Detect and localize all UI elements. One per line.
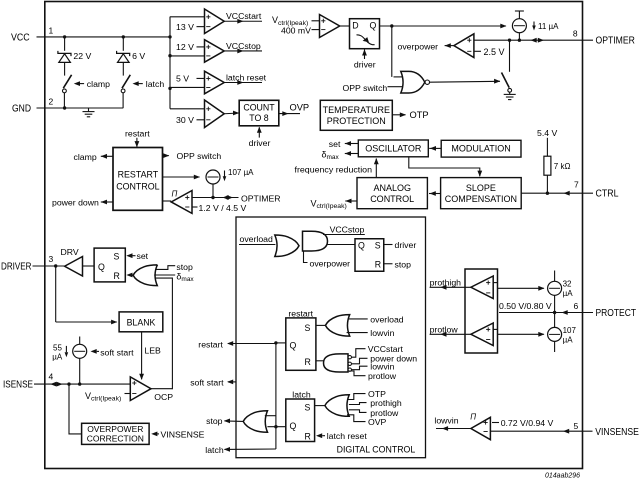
svg-text:6: 6 [574,301,579,311]
svg-text:latch: latch [146,79,165,89]
svg-text:overload: overload [240,234,273,244]
svg-text:stop: stop [395,259,412,269]
svg-text:OPTIMER: OPTIMER [596,36,635,47]
svg-text:D: D [352,21,358,31]
svg-text:400 mV: 400 mV [281,26,311,36]
svg-text:OPP switch: OPP switch [177,151,222,161]
svg-text:power down: power down [52,198,99,208]
svg-text:5: 5 [574,421,579,431]
svg-text:lowvin: lowvin [370,328,394,338]
svg-text:latch reset: latch reset [327,431,368,441]
svg-text:OVP: OVP [290,103,310,113]
svg-text:6 V: 6 V [132,51,145,61]
svg-text:3: 3 [49,254,54,264]
svg-text:clamp: clamp [74,152,97,162]
svg-text:restart: restart [125,128,150,138]
svg-text:Q: Q [290,341,297,351]
svg-text:TEMPERATURE: TEMPERATURE [323,105,390,115]
svg-text:OVERPOWER: OVERPOWER [87,424,143,434]
svg-text:5 V: 5 V [176,74,189,84]
svg-text:latch: latch [292,390,311,400]
svg-text:CORRECTION: CORRECTION [87,434,144,444]
svg-text:1.2 V / 4.5 V: 1.2 V / 4.5 V [199,203,247,213]
svg-text:BLANK: BLANK [127,317,156,327]
svg-text:PROTECTION: PROTECTION [327,116,386,126]
svg-text:GND: GND [12,104,31,115]
svg-text:OSCILLATOR: OSCILLATOR [365,144,422,154]
svg-text:µA: µA [563,335,574,344]
svg-text:OPTIMER: OPTIMER [241,193,281,203]
svg-text:set: set [329,139,341,149]
svg-text:Π: Π [470,413,476,422]
svg-text:prothigh: prothigh [370,398,402,408]
svg-text:2: 2 [49,97,54,107]
svg-text:overpower: overpower [310,258,351,268]
svg-text:SLOPE: SLOPE [466,183,496,193]
svg-text:prothigh: prothigh [430,277,462,287]
svg-text:014aab296: 014aab296 [545,473,580,480]
svg-text:overload: overload [370,314,403,324]
svg-text:13 V: 13 V [176,22,194,32]
svg-text:Q: Q [358,241,365,251]
svg-text:S: S [305,323,311,333]
svg-text:VCCstop: VCCstop [330,225,365,235]
svg-text:ANALOG: ANALOG [373,183,411,193]
svg-text:S: S [305,403,311,413]
svg-text:0.72 V/0.94 V: 0.72 V/0.94 V [501,418,554,428]
svg-text:COUNT: COUNT [243,103,275,113]
svg-text:8: 8 [573,28,578,38]
svg-text:overpower: overpower [398,42,439,52]
svg-text:107 µA: 107 µA [228,168,254,177]
svg-text:VCC: VCC [11,33,30,44]
svg-text:restart: restart [198,339,223,349]
svg-text:12 V: 12 V [176,42,194,52]
svg-text:R: R [375,259,381,269]
svg-text:VCCstart: VCCstart [226,11,262,21]
svg-text:S: S [114,251,120,261]
svg-text:clamp: clamp [87,79,110,89]
svg-text:TO 8: TO 8 [249,113,269,123]
svg-text:VINSENSE: VINSENSE [595,427,639,438]
svg-text:4: 4 [49,372,54,382]
svg-text:latch: latch [205,445,224,455]
svg-text:protlow: protlow [430,325,459,335]
svg-text:CTRL: CTRL [596,189,619,200]
svg-text:µA: µA [52,352,63,361]
svg-text:set: set [137,251,149,261]
svg-text:VCCstop: VCCstop [226,41,261,51]
svg-text:1: 1 [49,25,54,35]
svg-text:OVP: OVP [368,417,387,427]
svg-text:32: 32 [563,279,572,288]
svg-text:30 V: 30 V [176,115,194,125]
svg-text:0.50 V/0.80 V: 0.50 V/0.80 V [499,301,552,311]
svg-text:22 V: 22 V [73,51,91,61]
svg-text:MODULATION: MODULATION [451,144,510,154]
svg-text:lowvin: lowvin [370,362,394,372]
svg-text:OPP switch: OPP switch [343,83,388,93]
svg-text:Π: Π [172,189,178,198]
svg-text:R: R [114,271,120,281]
svg-text:Q: Q [98,262,105,272]
svg-text:COMPENSATION: COMPENSATION [445,194,517,204]
svg-text:VINSENSE: VINSENSE [161,429,205,439]
svg-text:CONTROL: CONTROL [116,181,159,191]
svg-text:soft start: soft start [100,347,134,357]
svg-text:OCP: OCP [154,392,173,402]
svg-text:soft start: soft start [190,377,224,387]
svg-text:stop: stop [206,416,223,426]
svg-text:lowvin: lowvin [434,415,458,425]
svg-text:R: R [305,432,311,442]
svg-text:ISENSE: ISENSE [3,380,33,391]
svg-text:µA: µA [563,289,574,298]
svg-text:Q: Q [290,421,297,431]
svg-text:Q: Q [370,21,377,31]
svg-text:7: 7 [574,180,579,190]
svg-text:S: S [375,241,381,251]
svg-text:driver: driver [354,59,376,69]
svg-text:107: 107 [563,326,577,335]
svg-text:CONTROL: CONTROL [370,194,414,204]
svg-text:LEB: LEB [144,345,161,355]
svg-text:DRV: DRV [61,247,79,257]
svg-text:RESTART: RESTART [118,170,159,180]
svg-text:7 kΩ: 7 kΩ [554,162,571,171]
svg-text:latch reset: latch reset [226,72,267,82]
svg-text:2.5 V: 2.5 V [484,47,505,57]
svg-text:OTP: OTP [410,110,429,120]
svg-text:driver: driver [395,240,417,250]
svg-text:DRIVER: DRIVER [1,261,32,272]
svg-text:PROTECT: PROTECT [596,308,637,319]
svg-text:driver: driver [249,138,271,148]
svg-text:DIGITAL CONTROL: DIGITAL CONTROL [337,444,416,454]
svg-text:frequency reduction: frequency reduction [295,165,373,175]
svg-text:11 µA: 11 µA [538,22,559,31]
svg-text:protlow: protlow [368,371,397,381]
svg-text:restart: restart [288,308,313,318]
svg-text:55: 55 [53,344,62,353]
svg-text:R: R [305,357,311,367]
svg-text:5.4 V: 5.4 V [537,128,557,138]
